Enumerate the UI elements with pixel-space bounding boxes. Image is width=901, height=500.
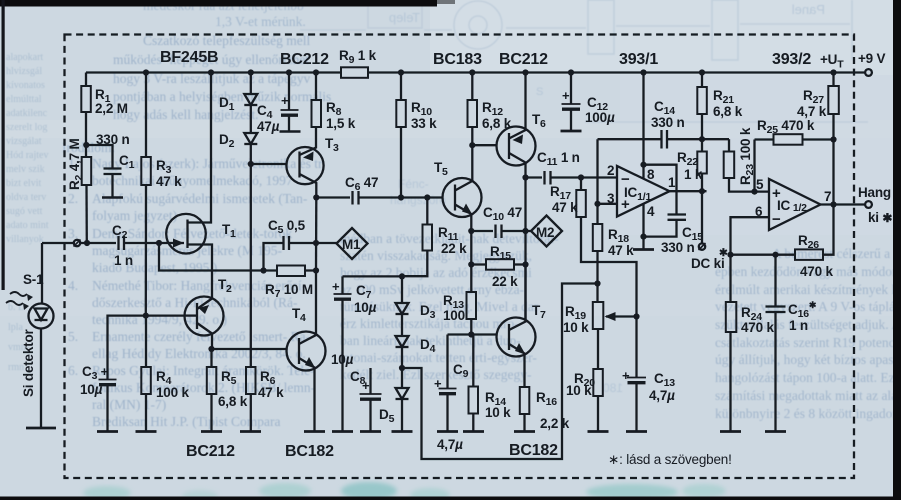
- resistor R22: [697, 139, 707, 191]
- svg-text:33 k: 33 k: [411, 116, 437, 131]
- svg-text:kívonatos: kívonatos: [6, 80, 45, 91]
- node C10 right: [522, 228, 528, 234]
- svg-text:7: 7: [824, 189, 831, 204]
- capacitor C5: [284, 236, 337, 250]
- svg-text:hangszóró: hangszóró: [390, 193, 446, 207]
- resistor R23: [724, 139, 769, 191]
- svg-text:393/2: 393/2: [772, 51, 811, 68]
- svg-text:BC212: BC212: [186, 443, 235, 460]
- svg-text:10µ: 10µ: [354, 300, 377, 315]
- node rail dot R8: [313, 69, 319, 75]
- svg-text:180: 180: [603, 381, 623, 395]
- svg-text:adatkilenc: adatkilenc: [6, 108, 48, 119]
- ghost reverse-side diagram shapes (top): [300, 0, 868, 122]
- svg-text:4,7µ: 4,7µ: [649, 388, 675, 403]
- resistor R26: [795, 205, 834, 260]
- wire pin8 supply riser: [642, 73, 644, 179]
- resistor R14: [469, 335, 479, 432]
- scan black edges: [0, 0, 437, 7]
- node C5 branch on R7 wire: [260, 267, 266, 273]
- svg-text:22 k: 22 k: [441, 241, 467, 256]
- wire wiper to C13: [635, 317, 637, 378]
- svg-text:hlvizsgál: hlvizsgál: [6, 66, 42, 77]
- svg-text:M2: M2: [536, 225, 554, 240]
- svg-text:hogy adás kell hangjelzést.: hogy adás kell hangjelzést.: [113, 107, 258, 122]
- wire T1 gate to R7 branch: [159, 243, 277, 271]
- node DC ki terminal: [699, 243, 706, 250]
- diode D3: [396, 276, 409, 314]
- node R15 left: [468, 261, 474, 267]
- resistor R3: [141, 73, 151, 316]
- svg-text:∗: lásd a szövegben!: ∗: lásd a szövegben!: [608, 452, 732, 467]
- node rail dot R10: [398, 69, 404, 75]
- node Hang ki terminal: [865, 201, 872, 208]
- svg-text:+: +: [621, 196, 630, 213]
- svg-text:1 k: 1 k: [684, 167, 703, 182]
- svg-text:elmúlttal: elmúlttal: [6, 94, 42, 105]
- wire DC ki tap: [701, 191, 703, 243]
- svg-text:dőszerkesztő a Hi-Fi technikáb: dőszerkesztő a Hi-Fi technikából (Rá-: [92, 295, 298, 310]
- svg-text:adato mint: adato mint: [6, 220, 49, 231]
- svg-text:330 n: 330 n: [651, 115, 685, 130]
- wire T7 base: [448, 333, 498, 335]
- transistor T3 (BC212): [286, 127, 323, 198]
- svg-text:technika 1994/9, 429. o.): technika 1994/9, 429. o.): [92, 312, 227, 327]
- transistor T6 (BC212): [497, 73, 536, 178]
- ground R4: [136, 430, 157, 433]
- svg-text:Alapfokú sugárvédelmi ismerete: Alapfokú sugárvédelmi ismeretek (Tan-: [92, 191, 308, 206]
- svg-text:A bemérést célszerű a fül: A bemérést célszerű a fül: [772, 246, 901, 261]
- node T3 collector column on C5 wire: [313, 240, 319, 246]
- node rail dot R21: [699, 69, 705, 75]
- node input terminal: [74, 240, 81, 247]
- wire T3 collector column to M1 and R7: [315, 198, 318, 271]
- wire C7 top to diode chain: [343, 275, 403, 277]
- ground C13: [626, 430, 647, 433]
- node rail dot T6: [522, 69, 528, 75]
- svg-text:Fénc-: Fénc-: [398, 177, 429, 191]
- svg-text:4,7 k: 4,7 k: [797, 104, 827, 119]
- node R25/R27 junction: [830, 136, 836, 142]
- resistor R2: [82, 157, 92, 243]
- resistor R1: [81, 73, 91, 158]
- svg-text:bizt elvit: bizt elvit: [6, 178, 41, 189]
- capacitor C8 electrolytic: [360, 368, 382, 432]
- svg-text:330 n: 330 n: [661, 240, 695, 255]
- svg-text:+9 V: +9 V: [858, 51, 886, 66]
- svg-text:5.: 5.: [68, 329, 78, 344]
- op-amp IC1/1: [617, 166, 670, 217]
- svg-text:BF245B: BF245B: [160, 49, 218, 66]
- wire pin4 ground leg: [642, 204, 644, 250]
- wire feedback loop from D4/D5 node to R18 foot: [402, 284, 598, 460]
- resistor R8: [312, 73, 322, 128]
- node rail dot R12: [469, 69, 475, 75]
- node C10 left: [468, 228, 474, 234]
- svg-text:2.: 2.: [68, 191, 78, 206]
- svg-text:folyam jegyzet): folyam jegyzet): [92, 208, 177, 223]
- svg-text:ki ✱: ki ✱: [868, 210, 892, 225]
- resistor R25: [755, 134, 834, 191]
- resistor R5: [207, 349, 217, 432]
- node pin8/C15 branch: [640, 162, 646, 168]
- node T3 collector junction: [313, 194, 319, 200]
- svg-text:1,3 V-et mérünk.: 1,3 V-et mérünk.: [215, 14, 306, 29]
- svg-text:BC182: BC182: [509, 442, 558, 459]
- resistor R17: [576, 178, 636, 317]
- wire T5 emitter column: [470, 231, 472, 292]
- svg-text:1 n: 1 n: [789, 318, 808, 333]
- ground C9: [437, 430, 458, 433]
- svg-text:BC212: BC212: [280, 51, 329, 68]
- node pin3 junction: [594, 201, 600, 207]
- resistor R12: [468, 73, 478, 146]
- svg-text:úgy állítjuk, hogy két bíztos: úgy állítjuk, hogy két bíztos apasztanál…: [715, 352, 901, 367]
- node pin5 junction: [751, 189, 757, 195]
- svg-text:8: 8: [647, 167, 655, 182]
- svg-text:1 n: 1 n: [114, 253, 133, 268]
- ground T4: [304, 430, 325, 433]
- wire +9V supply rail: [86, 71, 865, 73]
- resistor R27: [828, 73, 839, 205]
- svg-text:számítási megadottak miatt: számítási megadottak miatt az alábbi: [715, 388, 901, 403]
- wire C5 branch riser: [264, 243, 283, 271]
- svg-text:+: +: [281, 93, 289, 108]
- capacitor C3 electrolytic: [99, 380, 117, 432]
- svg-text:330 n: 330 n: [96, 132, 130, 147]
- capacitor C2: [119, 236, 169, 250]
- node D2/R6 junction (T3 base tap): [248, 161, 254, 167]
- node T6 base junction: [469, 142, 475, 148]
- svg-text:vizsgálat: vizsgálat: [6, 136, 42, 147]
- svg-text:+: +: [332, 279, 340, 294]
- node R19 wiper: [633, 313, 639, 319]
- node T7 base junction: [468, 331, 474, 337]
- resistor R4: [141, 316, 151, 432]
- svg-text:+: +: [434, 376, 442, 391]
- capacitor C6: [316, 191, 443, 205]
- transistor T5 (BC183): [443, 145, 482, 231]
- node R11 top on T5 base wire: [424, 194, 430, 200]
- svg-text:Brediksan Hit J.P. (Tipist Com: Brediksan Hit J.P. (Tipist Compara: [92, 414, 281, 429]
- svg-text:alapokart: alapokart: [6, 52, 43, 63]
- capacitor C12 electrolytic: [562, 73, 581, 132]
- node T6 collector junction: [522, 174, 528, 180]
- svg-text:47 k: 47 k: [608, 243, 634, 258]
- svg-text:100: 100: [443, 308, 465, 323]
- resistor R20: [593, 369, 603, 432]
- colour stains along bottom edge: [83, 482, 726, 500]
- wire T3 base: [251, 163, 287, 165]
- resistor R15: [471, 259, 525, 270]
- node R21/R22 junction: [699, 136, 705, 142]
- wire pin6 loop: [731, 217, 770, 255]
- svg-text:22 k: 22 k: [492, 274, 518, 289]
- svg-text:Hang: Hang: [858, 185, 891, 200]
- capacitor C14: [598, 130, 730, 149]
- svg-text:+: +: [562, 88, 570, 103]
- op-amp IC1/2: [769, 179, 821, 230]
- wire pin3 input: [596, 139, 598, 224]
- svg-text:hangolózást tápon 100-a ala: hangolózást tápon 100-a alatt. Ezen: [715, 370, 901, 385]
- svg-text:4: 4: [647, 204, 655, 219]
- measuring point M2: [531, 216, 562, 247]
- svg-text:melv szik: melv szik: [6, 164, 45, 175]
- svg-text:BC183: BC183: [433, 51, 482, 68]
- svg-text:10 k: 10 k: [566, 383, 592, 398]
- wire IC1/1 output: [670, 190, 707, 192]
- svg-text:−: −: [772, 211, 781, 228]
- wire C15 top branch: [644, 165, 677, 215]
- node pin6/R24 junction: [727, 252, 733, 258]
- svg-text:2,2 k: 2,2 k: [540, 416, 570, 431]
- ground R5: [201, 430, 222, 433]
- svg-text:csatlakoztatás szerint R19 pot: csatlakoztatás szerint R19 potencióval: [715, 335, 901, 350]
- wire T6 base: [472, 144, 497, 146]
- svg-text:+: +: [362, 378, 370, 393]
- svg-text:botechnikai műnyomelmekadó, 19: botechnikai műnyomelmekadó, 1997: [92, 173, 293, 188]
- svg-text:6,8 k: 6,8 k: [218, 394, 248, 409]
- svg-text:−: −: [621, 171, 630, 188]
- svg-text:470 k: 470 k: [741, 320, 774, 335]
- node M1 wire dot: [313, 267, 319, 273]
- resistor R13: [467, 292, 477, 335]
- svg-text:sugó vett: sugó vett: [6, 206, 43, 217]
- resistor R9 (in rail): [341, 67, 368, 78]
- svg-text:47µ: 47µ: [257, 119, 280, 134]
- capacitor C10: [471, 225, 531, 239]
- resistor R7: [277, 266, 316, 277]
- svg-text:✱: ✱: [719, 247, 728, 259]
- ground R16: [514, 430, 535, 433]
- wire T2 collector to T4 base: [212, 348, 287, 350]
- svg-text:2,2 M: 2,2 M: [95, 101, 128, 116]
- svg-text:6,8 k: 6,8 k: [713, 104, 743, 119]
- ground R24: [720, 430, 741, 433]
- capacitor C4 electrolytic: [281, 73, 299, 132]
- wire gate arrow: [168, 239, 184, 248]
- svg-text:latonai-számokat tetten érti-e: latonai-számokat tetten érti-egyszer-: [340, 350, 537, 365]
- node rail dot C12: [568, 69, 574, 75]
- node R10 foot on T5 base wire: [398, 194, 404, 200]
- svg-text:Panel: Panel: [792, 2, 825, 17]
- wire T2 base line: [146, 314, 185, 316]
- S-1 light arrows: [6, 292, 33, 310]
- node output/R26 junction: [830, 201, 836, 207]
- svg-text:Telep: Telep: [389, 10, 420, 25]
- svg-text:10 k: 10 k: [563, 320, 589, 335]
- svg-text:+: +: [622, 368, 630, 383]
- svg-text:100µ: 100µ: [585, 110, 615, 125]
- node +9V terminal: [865, 69, 872, 76]
- ground IC1/1 pin4: [633, 248, 654, 251]
- capacitor C16: [766, 255, 786, 432]
- ground C1: [102, 196, 123, 199]
- wire to C1: [86, 145, 112, 169]
- ground C12: [561, 130, 582, 133]
- svg-text:M1: M1: [342, 237, 361, 252]
- svg-text:10µ: 10µ: [331, 352, 354, 367]
- wire IC1/2 output: [821, 203, 866, 205]
- svg-text:oldva terv: oldva terv: [6, 192, 46, 203]
- svg-text:470 k: 470 k: [800, 264, 833, 279]
- wire pin3 to op-amp: [598, 203, 618, 205]
- svg-text:BC212: BC212: [499, 51, 548, 68]
- capacitor C7 electrolytic: [334, 276, 352, 431]
- transistor T1 (BF245B JFET): [166, 73, 212, 299]
- svg-text:2: 2: [607, 163, 614, 178]
- svg-text:+: +: [772, 185, 781, 202]
- svg-text:6.: 6.: [68, 363, 78, 378]
- svg-text:S: S: [536, 86, 543, 98]
- node rail dot 393/1: [640, 69, 646, 75]
- ground C8: [360, 430, 381, 433]
- node rail dot D1: [248, 69, 254, 75]
- ground C3: [97, 430, 118, 433]
- node rail dot R27: [830, 69, 836, 75]
- ground R20: [588, 430, 609, 433]
- resistor R24: [726, 255, 737, 432]
- diode D2: [244, 105, 257, 144]
- capacitor C9 electrolytic: [439, 335, 457, 432]
- svg-text:3: 3: [607, 191, 615, 206]
- diode D4: [396, 314, 409, 347]
- svg-text:4,7µ: 4,7µ: [437, 437, 463, 452]
- svg-text:6: 6: [755, 204, 763, 219]
- dashed frame border: [65, 35, 855, 479]
- svg-text:villanyok: villanyok: [6, 234, 44, 245]
- ground S-1: [26, 427, 56, 430]
- node rail dot R3: [143, 69, 149, 75]
- svg-text:47 k: 47 k: [552, 200, 578, 215]
- wire input line: [42, 242, 116, 244]
- svg-text:393/1: 393/1: [619, 51, 658, 68]
- svg-text:Rapos Gyulai: Integrált áramkö: Rapos Gyulai: Integrált áramkörök. Tele-: [92, 363, 315, 378]
- resistor R18: [593, 224, 603, 302]
- node R15 right: [522, 261, 528, 267]
- svg-text:10 k: 10 k: [485, 405, 511, 420]
- node diode chain top: [399, 273, 405, 279]
- resistor R10: [396, 73, 406, 198]
- wire pin6 to R26: [731, 254, 796, 256]
- svg-text:érelmúlt amerikai készítmények: érelmúlt amerikai készítmények kö-: [715, 282, 901, 297]
- resistor R21: [697, 73, 707, 140]
- svg-text:6,8 k: 6,8 k: [482, 116, 512, 131]
- node T2 base junction: [143, 313, 149, 319]
- ground R14: [463, 430, 484, 433]
- svg-text:S-1: S-1: [23, 272, 44, 287]
- svg-text:10µ: 10µ: [80, 382, 103, 397]
- ground C4: [280, 130, 301, 133]
- ground D5: [392, 430, 413, 433]
- node pin4/C15 bottom: [640, 234, 646, 240]
- node rail dot C4: [286, 69, 292, 75]
- diode D5: [396, 347, 409, 432]
- capacitor C11: [526, 171, 618, 185]
- transistor T7 (BC182): [497, 265, 536, 388]
- node R17 top (pin2 wire): [578, 174, 584, 180]
- transistor T4 (BC182): [287, 271, 326, 432]
- node R18 foot: [594, 280, 600, 286]
- node R2 input junction: [84, 240, 90, 246]
- transistor T2 (BC212): [185, 297, 224, 350]
- node D4/D5 junction: [399, 365, 405, 371]
- svg-text:100 k: 100 k: [156, 385, 189, 400]
- photodiode S-1: [29, 243, 54, 428]
- svg-text:1: 1: [668, 175, 676, 190]
- potentiometer R19: [593, 302, 637, 369]
- ground C16: [765, 430, 786, 433]
- svg-text:BC182: BC182: [285, 443, 334, 460]
- node C16 junction: [772, 252, 778, 258]
- diode D1: [244, 73, 257, 106]
- capacitor C1: [104, 169, 122, 198]
- svg-text:1,5 k: 1,5 k: [326, 116, 356, 131]
- node output/R22/DC junction: [699, 188, 705, 194]
- ground R6: [240, 430, 261, 433]
- wire T6 collector column: [524, 178, 526, 321]
- ground C7: [332, 430, 353, 433]
- svg-text:47 k: 47 k: [156, 174, 182, 189]
- svg-text:4.: 4.: [68, 278, 78, 293]
- measuring point M1: [337, 228, 368, 259]
- resistor R16: [520, 387, 530, 432]
- svg-text:Hód rajtev: Hód rajtev: [6, 150, 49, 161]
- node R1/R2 junction: [83, 142, 89, 148]
- svg-text:47 k: 47 k: [258, 385, 284, 400]
- wire C3 branch: [108, 316, 146, 380]
- node T1 gate junction: [156, 240, 162, 246]
- svg-text:kiadó Budapest, 1995.): kiadó Budapest, 1995.): [92, 260, 217, 275]
- svg-text:különbnyire 2 és 8 között inga: különbnyire 2 és 8 között ingadozik, ezé…: [715, 406, 901, 421]
- resistor R6: [246, 144, 256, 432]
- svg-text:szerelt log: szerelt log: [6, 122, 47, 133]
- svg-text:Ernamente czerély felvezető is: Ernamente czerély felvezető ismert- Rá-: [92, 329, 311, 344]
- svg-text:5: 5: [756, 177, 764, 192]
- capacitor C13 electrolytic: [627, 378, 646, 432]
- resistor R11: [402, 198, 432, 277]
- svg-text:Si detektor: Si detektor: [21, 328, 36, 397]
- node rail dot T1: [208, 69, 214, 75]
- capacitor C15: [644, 215, 687, 237]
- node T2 collector junction: [208, 346, 214, 352]
